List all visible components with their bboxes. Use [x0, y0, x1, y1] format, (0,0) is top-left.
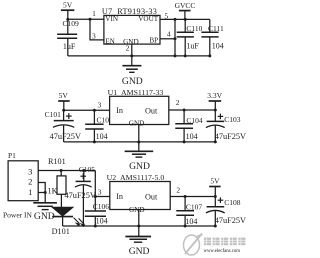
- svg-text:C107: C107: [186, 202, 203, 211]
- svg-text:1uF: 1uF: [186, 42, 199, 51]
- svg-text:47uF25V: 47uF25V: [215, 216, 246, 225]
- regulator U1 AMS1117-33: [108, 88, 169, 128]
- wire P1 gnd stub: [44, 193, 46, 203]
- svg-text:BP: BP: [149, 37, 158, 45]
- svg-text:GND: GND: [122, 76, 143, 87]
- capacitor C103 electrolytic: [206, 110, 246, 142]
- capacitor C111: [201, 19, 224, 56]
- node C106 tap: [94, 195, 97, 198]
- svg-text:1: 1: [92, 9, 96, 18]
- wire 5V rail to U7 VIN: [68, 18, 104, 20]
- svg-text:1: 1: [28, 187, 32, 197]
- capacitor C107: [176, 197, 202, 227]
- node C107 tap: [184, 195, 187, 198]
- node C103 at rail: [214, 140, 217, 143]
- power symbol 5V (top section): [61, 1, 74, 20]
- svg-text:D101: D101: [52, 227, 70, 236]
- svg-text:C101: C101: [45, 110, 62, 119]
- power symbol 3.3V: [207, 91, 222, 110]
- wire U1 Out rail: [169, 109, 216, 111]
- svg-text:GND: GND: [129, 161, 150, 172]
- node C102 tap: [93, 109, 96, 112]
- svg-text:2: 2: [176, 98, 180, 107]
- svg-text:C111: C111: [208, 24, 224, 33]
- LED D101: [52, 194, 85, 236]
- svg-text:GND: GND: [129, 206, 145, 214]
- capacitor C101 electrolytic: [45, 110, 81, 142]
- svg-text:Out: Out: [145, 106, 158, 115]
- watermark text: [204, 238, 246, 254]
- capacitor C106: [85, 197, 110, 227]
- node R101 tap: [60, 169, 63, 172]
- svg-text:5V: 5V: [210, 177, 220, 186]
- svg-text:3: 3: [98, 188, 102, 197]
- svg-text:In: In: [116, 192, 123, 201]
- wire U7 GND pin: [131, 44, 133, 65]
- svg-text:GND: GND: [129, 246, 150, 257]
- svg-text:104: 104: [96, 132, 108, 141]
- svg-text:C104: C104: [186, 116, 203, 125]
- svg-text:5V: 5V: [59, 91, 69, 100]
- svg-text:47uF25V: 47uF25V: [50, 132, 81, 141]
- wire 5V to U1 In: [64, 109, 110, 111]
- svg-text:47uF25V: 47uF25V: [65, 191, 96, 200]
- svg-text:U2 AMS1117-5.0: U2 AMS1117-5.0: [107, 173, 165, 182]
- node 5V stub at rail: [62, 109, 65, 112]
- wire P1 pin1: [38, 192, 45, 194]
- node C105 tap: [82, 169, 85, 172]
- node C106 at rail: [94, 225, 97, 228]
- capacitor C109: [57, 19, 79, 56]
- ground (top): [122, 66, 143, 88]
- power symbol 5V (middle section): [58, 91, 69, 110]
- wire middle ground rail: [64, 141, 216, 143]
- regulator U7 RT9193-33: [102, 7, 160, 46]
- capacitor C108 electrolytic: [206, 197, 246, 227]
- svg-text:C103: C103: [224, 115, 241, 124]
- svg-text:3: 3: [28, 167, 32, 177]
- svg-text:C109: C109: [63, 19, 80, 28]
- svg-text:P1: P1: [8, 151, 16, 160]
- ground (P1): [33, 203, 57, 222]
- capacitor C110: [177, 19, 203, 56]
- svg-text:3: 3: [98, 101, 102, 110]
- svg-text:GND: GND: [34, 211, 55, 222]
- node BP tie at rail: [174, 54, 177, 57]
- wire U2 Out rail: [170, 196, 215, 198]
- node GVCC junction: [184, 18, 187, 21]
- svg-text:U1 AMS1117-33: U1 AMS1117-33: [108, 88, 164, 97]
- wire BP to ground rail: [160, 38, 175, 40]
- node C111 bottom: [208, 54, 211, 57]
- resistor R101: [48, 157, 67, 196]
- wire P1 pin2: [38, 183, 45, 193]
- svg-text:2: 2: [126, 44, 130, 53]
- ground (bottom): [125, 237, 151, 258]
- capacitor C104: [175, 110, 203, 142]
- svg-text:C110: C110: [186, 24, 202, 33]
- svg-text:2: 2: [176, 186, 180, 195]
- watermark logo elecfans: [184, 234, 203, 256]
- svg-text:5V: 5V: [63, 1, 73, 10]
- svg-text:47uF25V: 47uF25V: [215, 132, 246, 141]
- power symbol GVCC: [175, 1, 196, 20]
- svg-text:www.elecfans.com: www.elecfans.com: [204, 249, 241, 254]
- wire VOUT rail: [160, 18, 210, 20]
- svg-text:104: 104: [96, 216, 108, 225]
- svg-text:C105: C105: [79, 165, 96, 174]
- svg-text:EN: EN: [105, 37, 115, 45]
- node EN tap: [89, 18, 92, 21]
- svg-text:Power IN: Power IN: [3, 210, 33, 219]
- svg-text:104: 104: [186, 132, 198, 141]
- wire P1 pin3 input rail: [38, 170, 95, 172]
- node C107 at rail: [184, 225, 187, 228]
- svg-text:104: 104: [212, 42, 224, 51]
- svg-text:1uF: 1uF: [63, 42, 76, 51]
- svg-text:GVCC: GVCC: [175, 1, 196, 10]
- wire U1 GND pin: [138, 125, 140, 152]
- svg-text:4: 4: [167, 30, 171, 39]
- wire input corner to U2 In: [95, 171, 110, 197]
- node C110 at rail: [184, 54, 187, 57]
- node U1 GND at rail: [137, 141, 140, 144]
- svg-text:VOUT: VOUT: [138, 15, 159, 23]
- svg-text:C106: C106: [93, 202, 110, 211]
- svg-text:GND: GND: [129, 120, 145, 128]
- wire U2 GND pin: [138, 210, 140, 237]
- capacitor C102: [85, 110, 113, 142]
- wire top ground rail: [68, 55, 210, 57]
- node C104 tap: [183, 109, 186, 112]
- svg-text:3: 3: [92, 31, 96, 40]
- ground (middle): [125, 151, 154, 172]
- svg-text:R101: R101: [48, 157, 66, 166]
- node U2 GND at rail: [137, 225, 140, 228]
- capacitor C105 electrolytic: [65, 165, 96, 226]
- svg-text:1K: 1K: [48, 186, 58, 195]
- svg-text:104: 104: [185, 217, 197, 226]
- svg-text:3.3V: 3.3V: [207, 91, 222, 100]
- svg-text:VIN: VIN: [105, 15, 119, 23]
- svg-text:In: In: [116, 106, 123, 115]
- wire bottom ground rail: [63, 225, 216, 227]
- svg-text:Out: Out: [145, 192, 158, 201]
- node U7 GND at rail: [130, 54, 133, 57]
- svg-text:C108: C108: [224, 198, 241, 207]
- node 5V corner: [214, 195, 217, 198]
- wire EN tie-down: [90, 19, 104, 40]
- svg-text:2: 2: [28, 177, 32, 187]
- power symbol 5V (bottom right): [209, 177, 220, 197]
- connector P1: [8, 151, 38, 201]
- node VIN junction: [66, 18, 69, 21]
- node C102 at rail: [93, 140, 96, 143]
- node 3.3V corner: [214, 109, 217, 112]
- regulator U2 AMS1117-5.0: [107, 173, 171, 214]
- node C104 at rail: [183, 140, 186, 143]
- node C108 at rail: [214, 225, 217, 228]
